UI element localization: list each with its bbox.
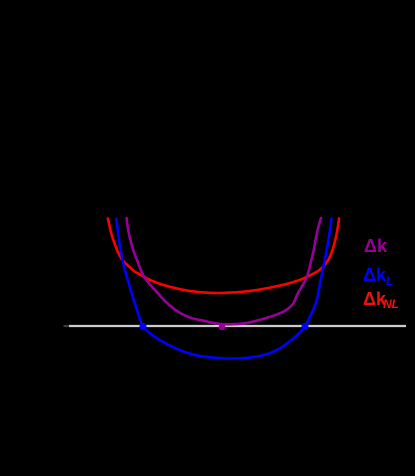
curve dkL (blue): [116, 219, 331, 359]
marker: blue dot left zero-crossing: [139, 323, 146, 330]
zero line (horizontal axis): [69, 325, 406, 327]
marker: purple dot at dk minimum: [219, 324, 226, 331]
label dkNL (red): [363, 290, 399, 310]
zero line dim lead-in: [64, 325, 70, 327]
label dk (purple): [364, 237, 387, 255]
curve dk (purple): [127, 218, 321, 324]
marker: blue dot right zero-crossing: [301, 323, 308, 330]
curve dkNL (red): [108, 219, 339, 294]
label dkL (blue): [363, 266, 393, 287]
